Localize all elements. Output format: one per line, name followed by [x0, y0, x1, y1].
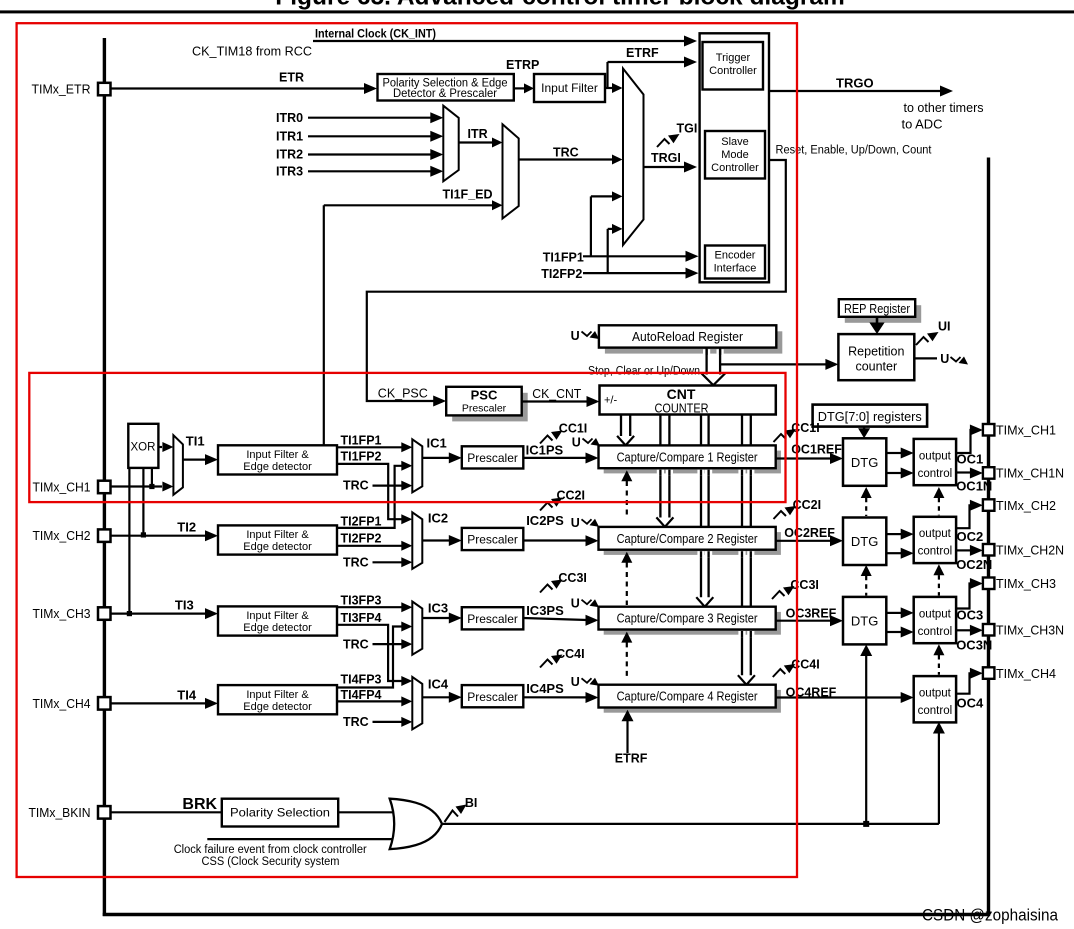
register Capture/Compare 2 Register	[604, 532, 781, 555]
svg-text:Stop, Clear or Up/Down: Stop, Clear or Up/Down	[588, 365, 700, 377]
svg-text:Detector & Prescaler: Detector & Prescaler	[393, 88, 497, 100]
svg-text:OC3REF: OC3REF	[786, 607, 837, 621]
svg-text:TRGO: TRGO	[836, 76, 874, 91]
block output control 2	[914, 517, 956, 563]
block Input Filter & Edge detector 2	[218, 525, 337, 554]
event squiggle capture 3	[582, 600, 592, 605]
svg-text:OC3: OC3	[957, 608, 984, 623]
svg-text:Controller: Controller	[711, 162, 759, 174]
svg-text:control: control	[918, 546, 953, 558]
port TIMx_CH3	[98, 607, 111, 620]
svg-text:BI: BI	[465, 796, 478, 810]
bus counter to capture/compare 1	[620, 415, 622, 437]
svg-text:Polarity Selection: Polarity Selection	[230, 806, 330, 820]
interrupt zigzag CC2I (right)	[774, 511, 787, 519]
wire ETR	[111, 87, 366, 89]
svg-text:U: U	[940, 352, 949, 366]
svg-text:TIMx_CH4: TIMx_CH4	[33, 696, 91, 711]
svg-text:Input Filter: Input Filter	[541, 81, 598, 95]
junction break to DTG3	[863, 821, 869, 827]
svg-text:CK_CNT: CK_CNT	[532, 386, 581, 401]
svg-text:TI2FP1: TI2FP1	[341, 514, 382, 528]
arrow REP register to repetition counter	[876, 317, 879, 323]
block output control 4	[914, 676, 956, 722]
wire polarity to OR gate	[338, 811, 399, 813]
svg-text:CC4I: CC4I	[556, 647, 584, 661]
svg-text:Edge detector: Edge detector	[243, 701, 312, 713]
svg-text:TRGI: TRGI	[651, 151, 681, 165]
svg-text:TGI: TGI	[677, 122, 698, 136]
wire OC2	[956, 505, 971, 528]
wire TRC channel 2	[373, 561, 403, 563]
svg-text:Interface: Interface	[714, 263, 757, 275]
register DTG[7:0] registers	[813, 405, 928, 427]
register Capture/Compare 1 Register	[604, 451, 781, 474]
wire OC3N	[956, 629, 971, 631]
svg-text:IC1PS: IC1PS	[526, 442, 564, 457]
wire xor input from TI2	[142, 468, 144, 535]
dashed capture event into CC2	[621, 552, 632, 563]
mux IC4 input select	[412, 677, 422, 729]
wire Internal Clock (CK_INT)	[313, 40, 685, 42]
svg-text:Encoder: Encoder	[715, 250, 756, 262]
wire TRC to trigger mux	[519, 158, 612, 160]
wire IC2	[422, 539, 450, 541]
wire break to DTG3	[865, 655, 867, 824]
svg-text:DTG[7:0] registers: DTG[7:0] registers	[818, 409, 922, 424]
wire ITR1	[308, 135, 432, 137]
event squiggle capture 1	[583, 439, 593, 444]
block trigger/slave-mode outer box	[700, 33, 769, 282]
svg-text:CSDN @zophaisina: CSDN @zophaisina	[922, 907, 1059, 925]
wire OC1REF	[776, 457, 831, 459]
main border left	[103, 38, 106, 916]
svg-text:TIMx_CH2N: TIMx_CH2N	[996, 543, 1064, 558]
svg-text:output: output	[919, 450, 952, 462]
svg-text:ITR: ITR	[468, 127, 488, 141]
block DTG 3	[843, 597, 886, 645]
svg-text:TIMx_ETR: TIMx_ETR	[32, 81, 91, 96]
svg-text:TI1FP1: TI1FP1	[543, 250, 584, 264]
port TIMx_CH2	[983, 499, 995, 511]
svg-text:Input Filter &: Input Filter &	[246, 689, 309, 701]
svg-text:ITR1: ITR1	[276, 129, 303, 143]
register Capture/Compare 3 Register	[604, 612, 781, 635]
interrupt zigzag CC2I (left)	[540, 503, 553, 511]
svg-text:Figure 65. Advanced-control ti: Figure 65. Advanced-control timer block …	[275, 0, 845, 11]
svg-text:CK_PSC: CK_PSC	[378, 385, 428, 400]
svg-text:ETRP: ETRP	[506, 58, 539, 72]
mux ITR select	[443, 106, 458, 182]
wire TI3FP3	[337, 606, 402, 608]
wire IC4PS	[523, 696, 587, 698]
wire TI1FP2 (down to IC2 mux)	[337, 464, 402, 519]
block Input Filter & Edge detector 4	[218, 685, 337, 714]
svg-text:control: control	[918, 705, 953, 717]
block output control 1	[914, 439, 956, 485]
svg-text:TIMx_CH2: TIMx_CH2	[996, 498, 1056, 513]
svg-text:OC4: OC4	[957, 695, 985, 710]
event squiggle capture 2	[582, 519, 592, 524]
bus casing through CC1 shadow	[657, 470, 664, 476]
block Input Filter	[534, 74, 605, 102]
wire ITR2	[308, 153, 432, 155]
svg-text:TI3FP3: TI3FP3	[341, 594, 382, 608]
svg-text:Input Filter &: Input Filter &	[246, 610, 309, 622]
dashed update DTG2-DTG3	[861, 565, 872, 576]
svg-text:CK_TIM18 from RCC: CK_TIM18 from RCC	[192, 44, 312, 59]
interrupt zigzag CC1I (right)	[774, 434, 787, 442]
svg-text:Capture/Compare 1 Register: Capture/Compare 1 Register	[617, 450, 758, 464]
mux IC1 input select	[412, 439, 422, 492]
port TIMx_CH2N	[983, 544, 995, 556]
svg-text:TIMx_CH2: TIMx_CH2	[33, 528, 91, 543]
interrupt zigzag CC1I (left)	[540, 436, 553, 444]
svg-text:Prescaler: Prescaler	[467, 612, 518, 626]
interrupt zigzag TGI	[657, 139, 670, 147]
svg-text:Internal Clock (CK_INT): Internal Clock (CK_INT)	[315, 29, 436, 41]
svg-text:BRK: BRK	[182, 796, 217, 813]
wire OC1	[956, 430, 971, 453]
svg-text:TI4: TI4	[177, 688, 197, 703]
svg-text:UI: UI	[938, 320, 951, 334]
svg-text:OC1REF: OC1REF	[791, 443, 842, 457]
dashed capture event into CC1	[621, 470, 632, 481]
wire slave mode controller to PSC (CK_PSC path)	[367, 160, 786, 401]
port TIMx_CH1N	[983, 467, 995, 479]
svg-text:OC2N: OC2N	[956, 557, 992, 572]
wire IC3	[422, 617, 450, 619]
svg-text:to ADC: to ADC	[902, 117, 943, 132]
svg-text:TI2FP2: TI2FP2	[541, 267, 582, 281]
wire DTG2 out a	[886, 533, 902, 535]
svg-text:Edge detector: Edge detector	[243, 622, 312, 634]
wire OC1N	[956, 471, 971, 473]
svg-text:IC4PS: IC4PS	[526, 681, 564, 696]
svg-text:COUNTER: COUNTER	[655, 402, 709, 416]
svg-text:CSS (Clock Security system: CSS (Clock Security system	[202, 856, 340, 868]
svg-text:AutoReload Register: AutoReload Register	[632, 329, 744, 344]
block Encoder Interface	[705, 246, 765, 279]
port TIMx_CH4	[983, 667, 995, 679]
wire ITR	[459, 141, 492, 143]
port TIMx_CH4	[98, 697, 111, 710]
svg-text:U: U	[571, 329, 580, 343]
bus casing through CC3 shadow	[738, 631, 745, 637]
bus counter to capture/compare 4	[741, 415, 743, 676]
svg-text:Capture/Compare 3 Register: Capture/Compare 3 Register	[617, 612, 758, 626]
svg-text:CC1I: CC1I	[559, 422, 587, 436]
wire XOR to TI1 mux	[158, 446, 162, 448]
block Repetition counter	[838, 334, 914, 380]
svg-text:DTG: DTG	[851, 534, 878, 549]
port TIMx_CH3	[983, 578, 995, 590]
svg-text:TIMx_CH3: TIMx_CH3	[996, 576, 1056, 591]
wire input filter output / node ETRF branch	[605, 87, 612, 89]
svg-text:Repetition: Repetition	[848, 345, 904, 359]
svg-text:ETRF: ETRF	[615, 751, 648, 765]
event squiggle capture 4	[582, 678, 592, 683]
svg-text:Prescaler: Prescaler	[467, 690, 518, 704]
wire U out of repetition counter	[914, 357, 937, 359]
wire DTG3 out b	[886, 631, 902, 633]
wire TRGI	[644, 166, 686, 168]
interrupt zigzag UI	[916, 337, 929, 345]
wire TRC channel 4	[373, 721, 403, 723]
block Polarity Selection & Edge Detector & Prescaler	[378, 74, 514, 101]
wire TI2FP2 to encoder interface	[583, 272, 686, 274]
red inner highlight rectangle (channel 1)	[29, 373, 785, 502]
register REP Register	[845, 305, 921, 323]
svg-text:OC1N: OC1N	[956, 478, 992, 493]
wire CSS clock failure	[207, 838, 398, 840]
svg-text:CNT: CNT	[667, 386, 696, 402]
wire OC2REF	[776, 540, 831, 542]
svg-text:Prescaler: Prescaler	[462, 403, 507, 415]
svg-text:TI1FP1: TI1FP1	[341, 433, 382, 447]
block DTG 1	[843, 438, 886, 486]
mux trigger input select	[623, 69, 644, 246]
bus autoreload to counter	[703, 349, 710, 355]
wire ITR3	[308, 170, 432, 172]
svg-text:control: control	[918, 626, 953, 638]
svg-text:U: U	[571, 675, 580, 689]
interrupt zigzag CC3I (right)	[772, 591, 785, 599]
wire DTG1 out b	[886, 472, 902, 474]
svg-text:OC2: OC2	[957, 529, 984, 544]
wire OC3REF	[776, 620, 831, 622]
svg-text:TRC: TRC	[553, 146, 579, 160]
svg-text:TIMx_CH1: TIMx_CH1	[996, 423, 1056, 438]
svg-text:U: U	[572, 435, 581, 449]
svg-text:CC1I: CC1I	[791, 421, 819, 435]
svg-text:Reset, Enable, Up/Down, Count: Reset, Enable, Up/Down, Count	[776, 145, 933, 157]
svg-text:Input Filter &: Input Filter &	[246, 449, 309, 461]
svg-text:control: control	[918, 468, 953, 480]
svg-text:REP Register: REP Register	[844, 302, 910, 316]
svg-text:Edge detector: Edge detector	[243, 541, 312, 553]
wire DTG3 out a	[886, 612, 902, 614]
svg-text:TIMx_CH1: TIMx_CH1	[33, 480, 91, 495]
svg-text:TI1: TI1	[186, 433, 205, 448]
svg-text:IC4: IC4	[428, 676, 449, 691]
svg-text:TRC: TRC	[343, 715, 369, 729]
svg-text:XOR: XOR	[131, 442, 156, 454]
wire OC4	[956, 673, 971, 693]
block Prescaler 4	[462, 685, 524, 707]
mux TI1 select	[173, 435, 183, 495]
svg-text:TRC: TRC	[343, 637, 369, 651]
svg-text:ETR: ETR	[279, 71, 304, 85]
svg-text:Capture/Compare 4 Register: Capture/Compare 4 Register	[617, 690, 758, 704]
interrupt zigzag CC3I (left)	[540, 585, 553, 593]
wire CK_CNT	[522, 400, 588, 402]
svg-text:ITR0: ITR0	[276, 111, 303, 125]
wire OC3	[956, 584, 971, 609]
wire DTG1 out a	[886, 452, 902, 454]
svg-text:output: output	[919, 528, 952, 540]
svg-text:Capture/Compare 2 Register: Capture/Compare 2 Register	[617, 532, 758, 546]
svg-text:Edge detector: Edge detector	[243, 461, 312, 473]
wire TI1FP1 to encoder interface	[583, 255, 686, 257]
block Trigger Controller	[703, 42, 764, 90]
wire TI2FP2	[337, 545, 402, 547]
wire update to repetition counter	[720, 363, 826, 365]
svg-text:CC3I: CC3I	[790, 578, 818, 592]
svg-text:+/-: +/-	[604, 395, 617, 407]
svg-text:DTG: DTG	[851, 613, 878, 628]
wire ETRF to trigger controller	[608, 61, 686, 63]
wire IC1	[422, 457, 450, 459]
svg-text:TI4FP3: TI4FP3	[341, 672, 382, 686]
svg-text:DTG: DTG	[851, 455, 878, 470]
register PSC Prescaler	[452, 393, 528, 422]
svg-text:IC2: IC2	[428, 511, 448, 526]
wire TI4	[110, 702, 206, 704]
svg-text:PSC: PSC	[471, 388, 498, 403]
wire ITR0	[308, 117, 432, 119]
register Capture/Compare 4 Register	[604, 690, 781, 713]
block DTG 2	[843, 518, 886, 566]
svg-text:Prescaler: Prescaler	[467, 451, 518, 465]
wire ETRP	[514, 87, 524, 89]
port TIMx_CH1	[983, 424, 995, 436]
gate OR break	[390, 799, 442, 849]
wire xor input from TI1	[151, 468, 153, 487]
mux TRC select	[503, 124, 519, 218]
svg-text:Trigger: Trigger	[716, 52, 751, 64]
wire xor input from TI3	[128, 468, 130, 614]
red outer highlight rectangle	[17, 23, 797, 877]
dashed update OC2-OC3	[933, 564, 944, 575]
wire TI3	[110, 612, 206, 614]
block Input Filter & Edge detector 3	[218, 606, 337, 635]
block Slave Mode Controller	[705, 131, 765, 179]
event squiggle into autoreload	[582, 332, 592, 337]
dashed update OC1-OC2	[933, 487, 944, 498]
svg-text:TI3FP4: TI3FP4	[341, 611, 382, 625]
svg-text:CC3I: CC3I	[558, 571, 586, 585]
svg-text:Input Filter &: Input Filter &	[246, 529, 309, 541]
svg-text:IC3PS: IC3PS	[526, 603, 564, 618]
svg-text:Controller: Controller	[709, 65, 757, 77]
port TIMx_CH3N	[983, 624, 995, 636]
wire TI1	[183, 459, 206, 461]
svg-text:TIMx_BKIN: TIMx_BKIN	[29, 805, 91, 820]
svg-text:TI1F_ED: TI1F_ED	[443, 187, 493, 201]
register CNT COUNTER	[600, 386, 776, 415]
svg-text:TRC: TRC	[343, 555, 369, 569]
svg-text:output: output	[919, 608, 952, 620]
port TIMx_ETR	[98, 83, 111, 96]
svg-text:TI4FP4: TI4FP4	[341, 688, 382, 702]
wire BI output	[442, 823, 939, 825]
wire TIMx_CH1 to mux	[110, 485, 162, 487]
svg-text:TI2FP2: TI2FP2	[341, 531, 382, 545]
port TIMx_CH2	[98, 529, 111, 542]
block Prescaler 3	[462, 607, 524, 629]
wire TI4FP3 (up to IC3 mux)	[337, 627, 402, 688]
wire TI2FP1 (up to IC1 mux)	[337, 466, 402, 528]
arrow DTG registers to DTG	[863, 427, 865, 429]
wire TI1FP1	[337, 446, 402, 448]
block Input Filter & Edge detector 1	[218, 445, 337, 474]
title underline	[0, 10, 1074, 13]
svg-text:TIMx_CH1N: TIMx_CH1N	[996, 466, 1064, 481]
mux IC3 input select	[412, 602, 422, 655]
wire ETRF into CC4	[626, 721, 628, 754]
wire break to output control 4	[938, 733, 940, 824]
svg-text:Clock failure event from clock: Clock failure event from clock controlle…	[174, 844, 367, 856]
svg-text:Mode: Mode	[721, 149, 749, 161]
block output control 3	[914, 597, 956, 643]
svg-text:OC3N: OC3N	[956, 638, 992, 653]
svg-text:ETRF: ETRF	[626, 46, 659, 60]
register AutoReload Register	[605, 331, 782, 353]
svg-text:CC4I: CC4I	[791, 657, 819, 671]
svg-text:TI2: TI2	[177, 519, 196, 534]
interrupt zigzag CC4I (right)	[773, 669, 786, 677]
wire OC2N	[956, 549, 971, 551]
svg-text:TIMx_CH3: TIMx_CH3	[33, 606, 91, 621]
wire TI3FP4 (down to IC4 mux)	[337, 625, 402, 681]
block Polarity Selection	[222, 799, 338, 827]
svg-text:ITR2: ITR2	[276, 148, 303, 162]
svg-text:TIMx_CH4: TIMx_CH4	[996, 666, 1056, 681]
svg-text:TIMx_CH3N: TIMx_CH3N	[996, 623, 1064, 638]
svg-text:IC2PS: IC2PS	[526, 513, 564, 528]
svg-text:OC2REF: OC2REF	[784, 526, 835, 540]
svg-text:TI1FP2: TI1FP2	[341, 449, 382, 463]
wire TRGO	[769, 90, 941, 92]
wire IC4	[422, 696, 450, 698]
label XOR gate	[128, 424, 158, 468]
interrupt zigzag BI	[445, 811, 459, 823]
wire TI2	[110, 535, 206, 537]
wire OC4REF	[776, 696, 901, 698]
wire DTG2 out b	[886, 552, 902, 554]
bus casing through CC2 shadow	[697, 551, 704, 557]
svg-text:to other timers: to other timers	[904, 100, 984, 115]
wire TRC channel 1	[373, 485, 403, 487]
svg-text:CC2I: CC2I	[557, 489, 585, 503]
svg-text:IC3: IC3	[428, 600, 448, 615]
main border right	[987, 158, 990, 917]
svg-text:U: U	[571, 516, 580, 530]
svg-text:IC1: IC1	[427, 436, 447, 451]
interrupt zigzag CC4I (left)	[540, 660, 553, 668]
dashed update OC3-OC4	[933, 644, 944, 655]
svg-text:output: output	[919, 688, 952, 700]
svg-text:Slave: Slave	[721, 136, 749, 148]
event squiggle repetition U	[951, 357, 961, 362]
wire IC1PS	[523, 457, 587, 459]
svg-text:U: U	[571, 597, 580, 611]
svg-text:Prescaler: Prescaler	[467, 533, 518, 547]
bus counter to capture/compare 2	[659, 415, 661, 518]
wire TI2FP2 to trigger mux	[607, 229, 609, 273]
svg-text:counter: counter	[855, 360, 897, 374]
wire TI1FP1 to trigger mux	[590, 196, 592, 256]
dashed capture event into CC3	[621, 632, 632, 643]
svg-text:TRC: TRC	[343, 479, 369, 493]
wire IC2PS	[523, 539, 587, 541]
mux IC2 input select	[412, 512, 422, 569]
port TIMx_BKIN	[98, 806, 111, 819]
wire BRK	[110, 811, 222, 813]
main border bottom	[103, 913, 990, 916]
bus counter to capture/compare 3	[700, 415, 702, 598]
